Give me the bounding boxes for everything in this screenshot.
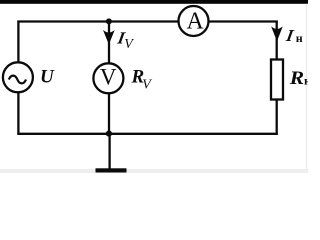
ammeter A circle bbox=[179, 6, 209, 36]
svg-text:V: V bbox=[142, 77, 152, 92]
label IV current bbox=[115, 29, 127, 48]
wire ground stem bbox=[108, 134, 110, 169]
arrowhead In bbox=[272, 27, 282, 40]
voltmeter V circle bbox=[93, 63, 123, 93]
ground bar bbox=[96, 168, 127, 172]
sine symbol in source bbox=[9, 76, 26, 84]
resistor Rn body bbox=[271, 60, 283, 100]
svg-text:R: R bbox=[289, 68, 304, 89]
svg-text:V: V bbox=[124, 37, 134, 52]
wire top bbox=[17, 20, 277, 22]
svg-text:н: н bbox=[304, 74, 308, 88]
right edge faint line bbox=[306, 4, 307, 170]
label Rn (load resistance) bbox=[289, 68, 304, 89]
wire bottom bbox=[17, 133, 277, 135]
svg-text:A: A bbox=[187, 8, 205, 34]
top black border bar bbox=[0, 0, 308, 4]
svg-text:н: н bbox=[296, 31, 303, 45]
source U circle bbox=[3, 62, 33, 92]
node junction bottom (ground tap) bbox=[106, 131, 112, 137]
bottom gray strip bbox=[0, 169, 308, 173]
wire right bbox=[276, 21, 278, 135]
node junction top (IV tap) bbox=[106, 18, 112, 24]
wire voltmeter branch bbox=[108, 22, 110, 134]
label In current bbox=[284, 26, 296, 45]
arrowhead IV bbox=[104, 31, 114, 44]
svg-text:I: I bbox=[284, 26, 296, 45]
svg-text:V: V bbox=[100, 64, 117, 89]
svg-text:U: U bbox=[40, 66, 55, 87]
wire left bbox=[17, 21, 19, 135]
